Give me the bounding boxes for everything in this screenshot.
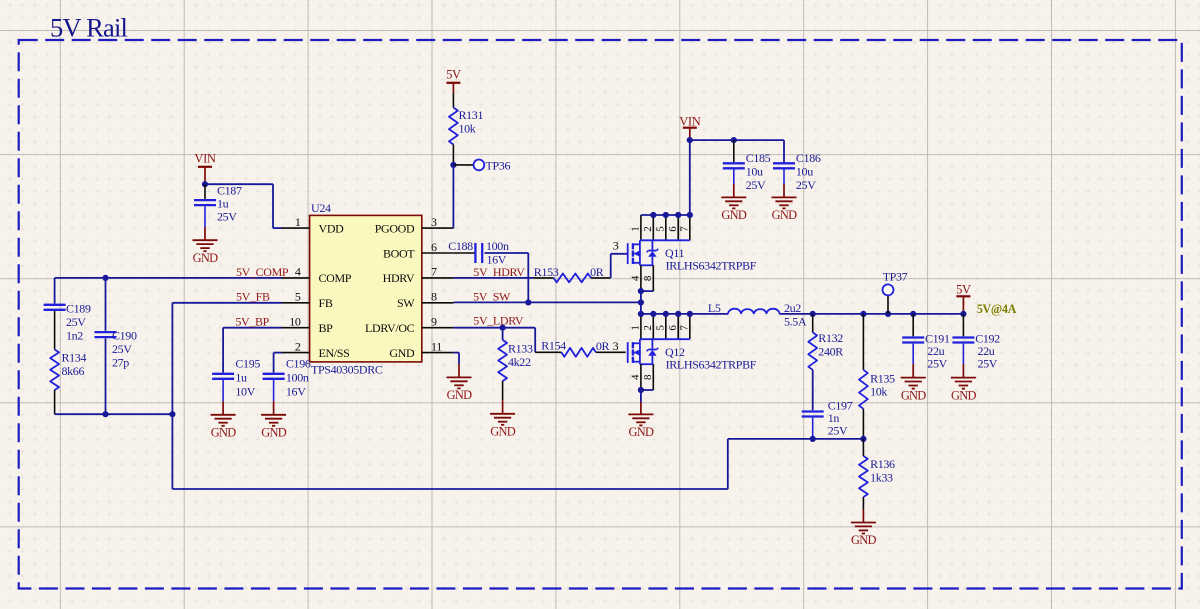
U24 pin 7 HDRV [383,265,454,286]
resistor R132 [808,314,843,410]
wire Q12 source link [641,389,653,391]
svg-text:TP36: TP36 [486,159,511,173]
svg-text:4: 4 [630,374,642,380]
wire Q12 drain rail [641,313,728,315]
svg-text:25V: 25V [796,178,816,192]
svg-text:4: 4 [295,265,301,279]
svg-text:COMP: COMP [319,271,352,285]
svg-text:BOOT: BOOT [383,246,415,260]
capacitor C191 [902,314,950,371]
power port 5V (output) [956,283,971,314]
capacitor C189 [44,278,91,350]
svg-text:GND: GND [851,533,876,547]
power port VIN (top right) [679,114,700,140]
svg-text:10k: 10k [870,385,887,399]
svg-text:25V: 25V [978,357,998,371]
ground below C192 [951,364,977,402]
svg-text:2: 2 [642,227,654,232]
U24 pin 4 COMP [282,265,352,286]
svg-text:GND: GND [211,426,236,440]
svg-text:1n2: 1n2 [66,329,83,343]
transistor Q11 IRLHS6342TRPBF [628,215,757,291]
wire BP [223,328,281,373]
svg-text:R153: R153 [534,265,559,279]
svg-text:8: 8 [431,290,437,304]
U24 pin 6 BOOT [383,240,454,260]
junction R133 tap [500,325,506,331]
svg-text:3: 3 [431,215,437,229]
wire Q11 drain rail [641,214,690,216]
junction R135 top [860,311,866,317]
U24 pin 9 LDRV/OC [365,315,454,336]
resistor R135 [859,314,895,439]
svg-text:2: 2 [642,326,654,331]
U24 pin 8 SW [397,290,454,311]
svg-text:TPS40305DRC: TPS40305DRC [311,363,383,377]
svg-text:L5: L5 [708,301,721,315]
capacitor C186 [773,140,821,192]
capacitor C192 [952,314,1000,371]
ground below Q12 [628,402,654,439]
svg-text:1k33: 1k33 [870,471,893,485]
svg-text:10: 10 [289,315,301,329]
svg-text:GND: GND [447,388,472,402]
resistor R136 [859,439,895,509]
svg-text:25V: 25V [746,178,766,192]
junction VIN2 [687,137,693,143]
ground below R136 [851,509,877,547]
svg-text:LDRV/OC: LDRV/OC [365,321,415,335]
junction C191 top [910,311,916,317]
svg-text:5: 5 [655,325,667,331]
ground below C186 [772,184,798,222]
U24 pin 11 GND [389,339,453,360]
svg-text:U24: U24 [311,201,331,215]
ground below C196 [261,401,287,439]
wire VIN rail [690,140,784,215]
svg-text:25V: 25V [828,424,848,438]
svg-text:GND: GND [901,388,926,402]
svg-text:R133: R133 [508,342,533,356]
wire R131 to PGOOD [452,165,454,228]
svg-text:4: 4 [630,275,642,281]
svg-text:7: 7 [679,226,691,232]
wire FB long bottom run [172,439,863,489]
capacitor C188 [448,239,528,267]
svg-text:1: 1 [295,215,301,229]
svg-text:10u: 10u [796,165,813,179]
svg-text:C187: C187 [217,183,242,197]
svg-text:C188: C188 [448,239,473,253]
svg-text:10u: 10u [746,165,763,179]
svg-text:R154: R154 [541,338,566,352]
svg-text:16V: 16V [286,385,306,399]
junction C197 bottom [810,436,816,442]
svg-text:IRLHS6342TRPBF: IRLHS6342TRPBF [666,259,757,273]
svg-text:GND: GND [721,208,746,222]
svg-text:10k: 10k [459,122,476,136]
U24 pin 1 VDD [282,215,345,236]
U24 pin 5 FB [282,290,333,311]
junction C190 top [102,275,108,281]
wire VIN to VDD [205,184,282,228]
op-amp U24 TPS40305DRC body [310,201,422,377]
svg-text:C186: C186 [796,151,821,165]
svg-text:GND: GND [389,346,415,360]
junction Q12 drain [650,311,656,317]
svg-text:GND: GND [629,425,654,439]
capacitor C187 [194,183,242,227]
svg-text:3: 3 [613,339,619,353]
junction Q12 drain [638,311,644,317]
junction VIN/C187 [202,181,208,187]
svg-text:GND: GND [772,208,797,222]
test point TP36 [453,159,510,173]
svg-text:7: 7 [679,325,691,331]
wire SW vertical Q11 source to Q12 drain [640,291,642,314]
svg-text:0R: 0R [596,339,610,353]
svg-text:5V_SW: 5V_SW [473,289,511,303]
svg-text:100n: 100n [486,239,509,253]
resistor R134 [50,350,86,415]
svg-text:1: 1 [630,227,642,232]
svg-text:VIN: VIN [679,114,700,128]
power port VIN (left) [194,152,215,185]
junction Q11 drain [675,212,681,218]
svg-text:240R: 240R [818,345,843,359]
svg-text:100n: 100n [286,371,309,385]
junction Q12 source [638,387,644,393]
svg-text:5V_HDRV: 5V_HDRV [473,265,525,279]
resistor R153 0R [534,265,611,282]
junction Q12 drain [663,311,669,317]
svg-text:FB: FB [319,296,333,310]
svg-text:C185: C185 [746,151,771,165]
svg-text:BP: BP [319,321,334,335]
svg-text:6: 6 [667,325,679,331]
ground below C187 [193,227,219,265]
ground below U24 pin11 [447,364,473,402]
U24 pin 10 BP [282,315,334,336]
junction TP37 tap [885,311,891,317]
U24 pin 3 PGOOD [375,215,454,236]
wire Q12 source to gnd [640,390,642,402]
svg-text:5V_FB: 5V_FB [236,290,270,304]
svg-text:1u: 1u [217,196,229,210]
svg-text:5.5A: 5.5A [784,314,807,328]
ground below C195 [211,401,237,439]
svg-text:8k66: 8k66 [62,364,85,378]
svg-text:5V_BP: 5V_BP [235,315,269,329]
capacitor C185 [723,140,771,192]
svg-text:R131: R131 [459,108,484,122]
junction Q11 source [638,288,644,294]
svg-text:27p: 27p [112,356,129,370]
svg-text:25V: 25V [927,357,947,371]
wire SW [454,301,641,303]
svg-text:6: 6 [667,226,679,232]
junction R132 top [810,311,816,317]
wire comp bottom rail [55,413,173,415]
svg-text:9: 9 [431,315,437,329]
wire COMP rail [55,277,282,279]
svg-text:GND: GND [951,388,976,402]
capacitor C190 [95,278,137,414]
junction Q12 drain [687,311,693,317]
svg-text:GND: GND [490,425,515,439]
junction Q11 drain [663,212,669,218]
junction C185 tap [731,137,737,143]
capacitor C197 [802,399,853,439]
svg-text:SW: SW [397,296,415,310]
svg-text:C196: C196 [286,357,311,371]
U24 pin 2 EN/SS [282,339,350,360]
svg-text:1u: 1u [235,371,247,385]
junction BOOT/SW [525,299,531,305]
transistor Q12 IRLHS6342TRPBF [628,314,757,390]
wire output rail [780,313,964,315]
svg-text:5V Rail: 5V Rail [50,13,128,43]
svg-text:TP37: TP37 [883,270,908,284]
svg-text:1: 1 [630,326,642,331]
junction Q11 drain [650,212,656,218]
svg-text:VIN: VIN [194,152,215,166]
svg-text:R134: R134 [62,351,87,365]
ground below C185 [721,184,747,222]
svg-text:C195: C195 [235,357,260,371]
svg-text:25V: 25V [217,209,237,223]
svg-text:EN/SS: EN/SS [319,346,350,360]
junction Q11 drain [687,212,693,218]
svg-text:2: 2 [295,339,301,353]
svg-text:5V: 5V [956,283,971,297]
wire EN/SS [274,353,282,373]
wire HDRV [454,277,534,279]
svg-text:C190: C190 [112,329,137,343]
svg-text:7: 7 [431,265,437,279]
svg-text:R136: R136 [870,457,895,471]
test point TP37 [883,270,908,314]
capacitor C195 [212,357,260,402]
svg-text:5V@4A: 5V@4A [977,302,1017,316]
svg-text:3: 3 [613,239,619,253]
svg-text:25V: 25V [66,315,86,329]
wire GND pin11 [454,353,459,364]
svg-text:8: 8 [642,275,654,281]
svg-text:GND: GND [261,426,286,440]
svg-text:5V_COMP: 5V_COMP [236,265,289,279]
svg-text:R135: R135 [870,372,895,386]
ground below C191 [901,364,927,402]
svg-text:6: 6 [431,240,437,254]
wire Q11 source link [641,290,653,292]
svg-text:2u2: 2u2 [784,301,801,315]
junction SW at Q-stack [638,299,644,305]
wire R153 to Q11 gate [611,254,628,278]
junction feedback divider [860,436,866,442]
svg-text:IRLHS6342TRPBF: IRLHS6342TRPBF [666,357,757,371]
svg-text:4k22: 4k22 [508,355,531,369]
junction Q12 drain [675,311,681,317]
resistor R154 0R [535,338,626,356]
svg-text:25V: 25V [112,342,132,356]
resistor R131 [449,93,483,165]
svg-text:5: 5 [655,226,667,232]
junction TP36 tap [450,162,456,168]
svg-text:C189: C189 [66,302,91,316]
wire BOOT to SW [527,253,529,302]
resistor R133 [498,328,533,401]
svg-text:HDRV: HDRV [383,271,415,285]
svg-text:5V: 5V [446,68,461,82]
inductor L5 2u2 [708,301,807,329]
junction FB cross [169,411,175,417]
wire FB [172,303,281,489]
svg-text:8: 8 [642,374,654,380]
svg-text:5: 5 [295,290,301,304]
svg-text:0R: 0R [590,265,604,279]
power port 5V (top) [446,68,461,94]
svg-text:VDD: VDD [319,221,345,235]
svg-text:11: 11 [431,339,442,353]
svg-text:GND: GND [193,251,218,265]
svg-text:5V_LDRV: 5V_LDRV [473,313,524,327]
svg-text:R132: R132 [818,331,843,345]
capacitor C196 [263,357,311,402]
svg-text:10V: 10V [235,385,255,399]
junction C190 bottom [102,411,108,417]
junction output end [960,311,966,317]
wire LDRV [454,328,536,353]
ground below R133 [490,400,516,438]
svg-text:PGOOD: PGOOD [375,221,415,235]
